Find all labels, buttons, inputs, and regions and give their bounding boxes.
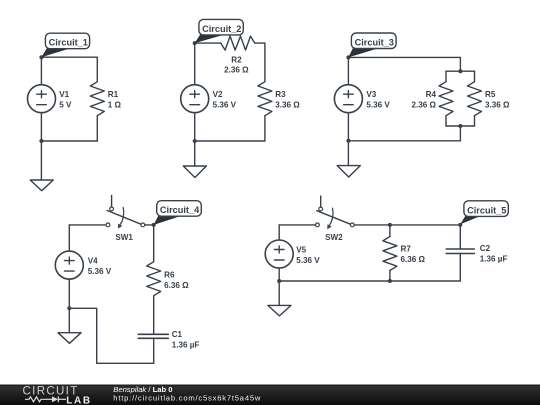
- wire left-upper C4: [68, 225, 70, 251]
- svg-text:V1: V1: [59, 90, 69, 99]
- svg-text:1.36 µF: 1.36 µF: [172, 340, 200, 349]
- resistor R6: [147, 225, 161, 334]
- switch SW2: [316, 196, 355, 229]
- node B1: [39, 139, 43, 143]
- resistor R2: [221, 36, 255, 50]
- svg-text:Circuit_4: Circuit_4: [160, 205, 200, 215]
- svg-text:R5: R5: [485, 90, 496, 99]
- svg-text:Circuit_5: Circuit_5: [467, 205, 506, 215]
- ground C3: [337, 141, 360, 177]
- ground C5: [268, 281, 291, 316]
- svg-text:http://circuitlab.com/c5sx6k7t: http://circuitlab.com/c5sx6k7t5a45w: [113, 393, 261, 402]
- switch SW1: [106, 195, 145, 228]
- svg-text:R4: R4: [426, 90, 437, 99]
- svg-text:SW2: SW2: [325, 233, 343, 242]
- svg-text:2.36 Ω: 2.36 Ω: [224, 66, 249, 75]
- svg-text:1 Ω: 1 Ω: [108, 101, 122, 110]
- svg-text:V3: V3: [366, 90, 376, 99]
- node B2: [193, 139, 197, 143]
- svg-text:3.36 Ω: 3.36 Ω: [275, 101, 300, 110]
- footer bar: [0, 385, 540, 405]
- svg-text:SW1: SW1: [115, 233, 133, 242]
- capacitor C2: [446, 225, 474, 281]
- label Circuit_5: [460, 201, 508, 224]
- node c2 top: [458, 223, 462, 227]
- svg-text:Circuit_3: Circuit_3: [355, 38, 394, 48]
- svg-text:V4: V4: [88, 257, 98, 266]
- ground C4: [58, 308, 81, 343]
- voltage source V4: [55, 251, 83, 279]
- logo squiggle: [25, 396, 66, 402]
- voltage source V2: [181, 85, 209, 113]
- ground C1: [30, 141, 53, 191]
- svg-text:5.36 V: 5.36 V: [213, 101, 237, 110]
- wire left-upper C1: [40, 57, 42, 84]
- node A2: [193, 41, 197, 45]
- wire top bar C3: [446, 70, 475, 72]
- node B3: [346, 139, 350, 143]
- wire sw1-right C4: [145, 224, 154, 226]
- node C3bot: [458, 124, 462, 128]
- svg-text:R7: R7: [401, 245, 412, 254]
- wire bottom C2: [195, 140, 265, 142]
- wire left-lower C2: [194, 113, 196, 141]
- svg-text:V2: V2: [213, 90, 223, 99]
- svg-text:2.36 Ω: 2.36 Ω: [412, 101, 437, 110]
- svg-text:6.36 Ω: 6.36 Ω: [401, 255, 426, 264]
- svg-text:R1: R1: [108, 90, 119, 99]
- wire top C1: [41, 56, 97, 58]
- svg-text:5.36 V: 5.36 V: [296, 256, 320, 265]
- svg-text:C1: C1: [172, 330, 183, 339]
- wire left-upper C2: [194, 43, 196, 85]
- label Circuit_2: [195, 19, 244, 43]
- svg-text:R6: R6: [164, 271, 175, 280]
- svg-text:Circuit_1: Circuit_1: [49, 38, 88, 48]
- svg-text:LAB: LAB: [66, 395, 91, 405]
- resistor R5: [468, 71, 482, 126]
- resistor R3: [258, 82, 272, 141]
- node r7 top: [388, 223, 392, 227]
- wire right-down C3: [459, 126, 461, 141]
- capacitor C1: [138, 334, 168, 363]
- wire left-lower C1: [40, 113, 42, 141]
- node A1: [39, 55, 43, 59]
- voltage source V5: [265, 240, 293, 268]
- resistor R7: [383, 225, 397, 281]
- node C3top: [458, 69, 462, 73]
- node sw1 out: [152, 223, 156, 227]
- node r7 bottom: [388, 279, 392, 283]
- node v4 bottom: [67, 306, 71, 310]
- svg-text:1.36 µF: 1.36 µF: [480, 255, 508, 264]
- svg-text:C2: C2: [480, 244, 491, 253]
- svg-text:5.36 V: 5.36 V: [366, 101, 390, 110]
- svg-text:V5: V5: [296, 245, 306, 254]
- wire sw1-left C4: [69, 224, 106, 226]
- voltage source V3: [334, 85, 362, 113]
- wire sw2-left C5: [279, 224, 315, 226]
- svg-text:Circuit_2: Circuit_2: [202, 24, 241, 34]
- svg-text:5 V: 5 V: [59, 101, 72, 110]
- resistor R4: [439, 71, 453, 126]
- wire top C3: [348, 57, 460, 71]
- wire left-upper C3: [347, 57, 349, 84]
- wire left-lower C4: [68, 279, 70, 308]
- ground C2: [183, 141, 206, 178]
- wire left-upper C5: [278, 225, 280, 240]
- svg-text:6.36 Ω: 6.36 Ω: [164, 281, 189, 290]
- svg-text:R3: R3: [275, 90, 286, 99]
- wire top-right C2: [255, 43, 265, 82]
- wire bottom C1: [41, 140, 97, 142]
- wire left-lower C3: [347, 113, 349, 141]
- svg-text:5.36 V: 5.36 V: [88, 267, 112, 276]
- node A3: [346, 55, 350, 59]
- voltage source V1: [28, 85, 56, 113]
- svg-text:3.36 Ω: 3.36 Ω: [485, 101, 510, 110]
- node v5 bottom: [277, 279, 281, 283]
- resistor R1: [90, 57, 104, 141]
- label Circuit_4: [154, 201, 202, 225]
- svg-text:R2: R2: [231, 55, 242, 64]
- wire left-lower C5: [278, 268, 280, 281]
- wire bottom C5: [279, 280, 460, 282]
- wire bottom path C4: [69, 308, 153, 363]
- wire sw2-right C5: [354, 224, 460, 226]
- wire top-left C2: [195, 42, 221, 44]
- label Circuit_3: [348, 33, 396, 57]
- wire bottom bar C3: [446, 125, 475, 127]
- wire bottom C3: [348, 140, 460, 142]
- label Circuit_1: [41, 33, 89, 57]
